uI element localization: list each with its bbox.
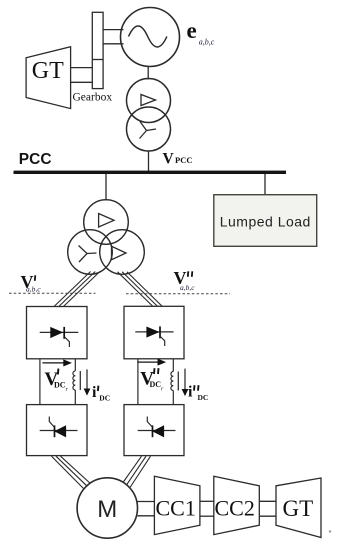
svg-text:a,b,c: a,b,c bbox=[180, 283, 195, 292]
svg-text:M: M bbox=[97, 496, 117, 523]
svg-text:DC: DC bbox=[198, 393, 209, 402]
svg-text:i: i bbox=[92, 384, 97, 401]
svg-text:DC: DC bbox=[99, 394, 110, 403]
svg-text:DC: DC bbox=[150, 380, 162, 389]
svg-text:PCC: PCC bbox=[175, 155, 192, 165]
svg-text:i: i bbox=[188, 384, 193, 401]
svg-text:a,b,c: a,b,c bbox=[199, 38, 215, 47]
svg-text:GT: GT bbox=[32, 58, 64, 84]
svg-text:GT: GT bbox=[283, 496, 314, 521]
svg-text:CC2: CC2 bbox=[215, 496, 255, 521]
svg-text:CC1: CC1 bbox=[156, 496, 196, 521]
svg-text:DC: DC bbox=[54, 380, 66, 389]
svg-text:a,b,c: a,b,c bbox=[26, 285, 41, 294]
svg-text:V: V bbox=[163, 150, 175, 167]
svg-text:Gearbox: Gearbox bbox=[73, 92, 113, 104]
svg-text:Lumped Load: Lumped Load bbox=[220, 213, 311, 229]
svg-text:e: e bbox=[187, 18, 197, 43]
svg-text:PCC: PCC bbox=[19, 151, 52, 168]
